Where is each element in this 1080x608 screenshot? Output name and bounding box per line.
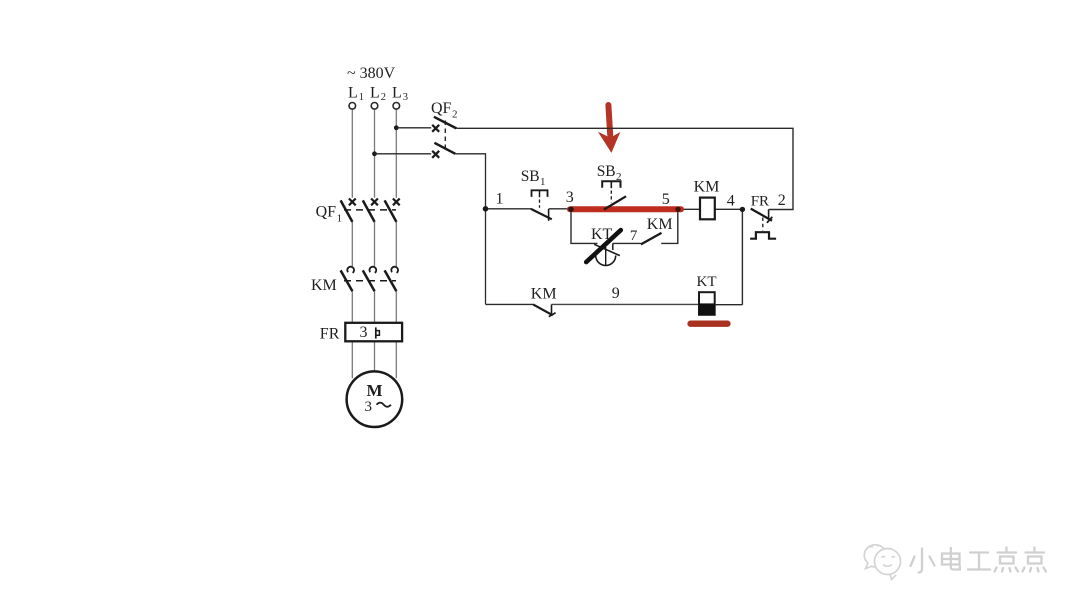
svg-text:KM: KM	[694, 179, 720, 196]
svg-text:FR: FR	[751, 194, 769, 210]
svg-text:QF: QF	[316, 204, 337, 221]
svg-text:4: 4	[727, 192, 735, 209]
svg-text:SB: SB	[597, 163, 616, 180]
svg-text:KM: KM	[531, 285, 557, 302]
svg-text:L: L	[392, 85, 402, 102]
svg-text:~ 380V: ~ 380V	[347, 65, 396, 82]
svg-text:1: 1	[359, 92, 364, 103]
svg-text:2: 2	[616, 171, 622, 183]
svg-text:2: 2	[778, 192, 786, 209]
svg-text:L: L	[370, 85, 380, 102]
svg-text:KT: KT	[697, 274, 717, 290]
svg-text:2: 2	[381, 92, 386, 103]
svg-text:1: 1	[337, 212, 343, 224]
svg-text:3: 3	[360, 324, 368, 341]
svg-text:7: 7	[630, 228, 638, 244]
svg-text:3: 3	[403, 92, 408, 103]
svg-text:KM: KM	[311, 277, 337, 294]
svg-text:3: 3	[566, 189, 574, 206]
svg-text:5: 5	[662, 191, 670, 208]
svg-text:2: 2	[452, 109, 458, 121]
svg-text:1: 1	[540, 176, 546, 188]
svg-text:KT: KT	[591, 226, 613, 243]
svg-text:QF: QF	[431, 100, 452, 117]
svg-text:9: 9	[612, 285, 620, 302]
svg-text:3: 3	[365, 399, 373, 415]
svg-text:KM: KM	[647, 216, 673, 233]
svg-text:SB: SB	[521, 168, 540, 185]
svg-text:L: L	[348, 85, 358, 102]
svg-text:FR: FR	[320, 326, 340, 343]
svg-text:M: M	[367, 381, 383, 400]
svg-text:1: 1	[496, 191, 504, 208]
